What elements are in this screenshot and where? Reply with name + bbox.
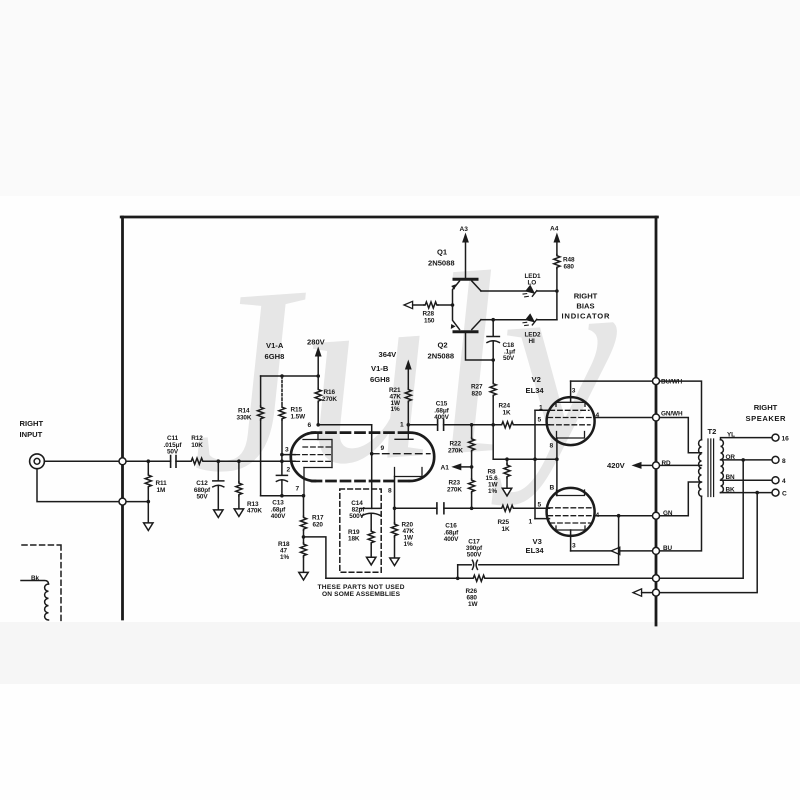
wire feedback row right segment — [486, 577, 652, 579]
svg-text:RIGHT: RIGHT — [20, 419, 44, 428]
V2 pin labels — [538, 388, 600, 450]
border feedthrough terminal upper — [119, 458, 126, 465]
wire R28 to emitter node — [438, 304, 453, 306]
capacitor C15 — [438, 419, 444, 430]
open arrow feedback at R28 — [404, 301, 413, 308]
label C18 .1uf 50V — [503, 342, 516, 362]
node R20 top — [393, 507, 397, 511]
wire BK tap — [721, 492, 772, 494]
svg-text:270K: 270K — [447, 486, 462, 493]
label 420V — [607, 461, 626, 470]
speaker terminal 16 — [772, 434, 779, 441]
label Bk — [31, 575, 40, 582]
label R19 18K — [348, 529, 360, 543]
V1 pentode grid dashes — [372, 453, 430, 455]
label A1 — [441, 464, 450, 471]
border left edge — [121, 217, 124, 619]
terminal GN — [653, 512, 660, 519]
capacitor C13 — [276, 461, 287, 496]
label R20 47K 1W 1% — [402, 522, 415, 549]
node R27 crossing — [491, 423, 495, 427]
terminal NFB arrow row — [653, 589, 660, 596]
svg-text:V1-B: V1-B — [371, 364, 389, 373]
svg-text:1K: 1K — [503, 409, 511, 416]
speaker terminal 4 — [772, 477, 779, 484]
arrow A3 — [462, 233, 469, 278]
svg-text:1%: 1% — [391, 406, 400, 413]
svg-text:280V: 280V — [307, 338, 326, 347]
wire R17 junction to feedback line — [304, 537, 326, 578]
wire R14 R15 280V top rail — [261, 375, 319, 377]
resistor R24 — [501, 422, 515, 428]
svg-text:OR: OR — [726, 454, 736, 461]
wire pin6 over to pin9 column — [318, 424, 372, 426]
label V3 EL34 — [526, 537, 545, 555]
svg-text:5: 5 — [538, 417, 542, 424]
capacitor C17 — [458, 560, 478, 569]
svg-text:270K: 270K — [322, 396, 337, 403]
svg-text:420V: 420V — [607, 461, 626, 470]
terminal GN/WH — [653, 414, 660, 421]
node R22 top — [470, 423, 474, 427]
label Q2 2N5088 — [428, 341, 455, 361]
svg-text:270K: 270K — [448, 447, 463, 454]
wire pin8 down — [394, 477, 396, 509]
node BK junction — [755, 491, 759, 495]
terminal BU — [653, 547, 660, 554]
resistor R15 — [279, 376, 285, 455]
wire BU/WH to primary top — [660, 381, 702, 440]
resistor R12 — [190, 458, 204, 464]
node 280V rail — [316, 374, 320, 378]
label V2 EL34 — [526, 375, 545, 395]
V3 cathode — [557, 490, 585, 496]
label GN/WH — [661, 411, 683, 418]
ground below R19 — [367, 557, 376, 565]
wire g1 riser — [534, 410, 536, 518]
wire V2 pin5 lead — [535, 424, 550, 426]
resistor R13 — [236, 461, 242, 509]
label 4 — [782, 478, 786, 485]
dashed box not-used parts — [340, 489, 381, 572]
label R8 15.6 1W 1% — [486, 469, 499, 496]
speaker terminal 8 — [772, 456, 779, 463]
svg-text:V3: V3 — [533, 537, 542, 546]
terminal feedback row — [653, 575, 660, 582]
wire V2 screen pin4 to GN/WH — [594, 417, 652, 419]
resistor R21 — [405, 388, 411, 425]
arrow 280V supply — [315, 347, 322, 377]
svg-text:A1: A1 — [441, 464, 450, 471]
wire V3 grid row — [444, 507, 535, 509]
ground below R11 — [144, 502, 153, 531]
label R16 270K — [322, 389, 337, 403]
wire pin8 row to C16 — [395, 507, 437, 509]
V1 pentode plate — [395, 433, 413, 440]
svg-text:1: 1 — [539, 405, 543, 412]
wire GN/WH to primary tap — [660, 418, 702, 453]
label R48 680 — [563, 257, 575, 271]
svg-text:1%: 1% — [488, 488, 497, 495]
border top edge — [121, 216, 657, 219]
wire riser to C17 — [479, 516, 619, 565]
label 364V — [379, 350, 398, 359]
label R21 47K 1W 1% — [389, 387, 401, 413]
resistor R28 — [424, 302, 438, 308]
svg-text:6GH8: 6GH8 — [265, 352, 285, 361]
ground below R8 — [502, 488, 511, 496]
svg-text:INDICATOR: INDICATOR — [562, 312, 611, 321]
arrow 364V supply — [405, 360, 412, 389]
node pin1 plate — [407, 423, 411, 427]
resistor R48 — [554, 255, 560, 320]
label R24 1K — [499, 403, 511, 417]
label A3 — [460, 226, 469, 233]
V2 grid dashes — [548, 410, 592, 425]
wire Q1 base to LED1 — [481, 290, 526, 292]
LED1 — [522, 285, 536, 300]
wire V2 pin1 lead — [535, 409, 550, 411]
label RIGHT SPEAKER — [746, 403, 787, 423]
svg-text:620: 620 — [313, 521, 324, 528]
wire V2 grid row — [444, 424, 535, 426]
svg-text:1M: 1M — [157, 487, 166, 494]
resistor R14 — [258, 376, 264, 496]
ground below R18 — [299, 572, 308, 580]
node A1 — [470, 465, 474, 469]
svg-text:2: 2 — [287, 467, 291, 474]
label R11 1M — [156, 480, 168, 494]
wire BN tap — [721, 479, 772, 481]
label 280V — [307, 338, 326, 347]
label C17 390pf 500V — [466, 539, 483, 559]
label RIGHT INPUT — [20, 419, 44, 439]
transformer T2 secondary winding — [721, 440, 724, 493]
wire V2 plate to BU/WH — [571, 380, 653, 382]
resistor R16 — [315, 376, 321, 425]
resistor R18 — [300, 537, 306, 573]
svg-text:2N5088: 2N5088 — [428, 352, 455, 361]
svg-text:B: B — [550, 485, 555, 492]
svg-text:18K: 18K — [348, 536, 360, 543]
svg-text:364V: 364V — [379, 350, 398, 359]
label LED2 HI — [525, 332, 541, 346]
input jack J1 — [30, 454, 45, 469]
svg-text:50V: 50V — [167, 449, 179, 456]
label T2 — [708, 427, 717, 436]
label R26 680 1W — [466, 588, 479, 608]
arrow A4 — [554, 233, 561, 255]
V3 plate — [556, 526, 585, 530]
label C15 .68uf 400V — [434, 401, 449, 422]
tube V3 envelope — [547, 488, 595, 536]
svg-text:150: 150 — [424, 317, 435, 324]
wire V2 pin8 lead — [556, 438, 558, 459]
svg-text:7: 7 — [296, 486, 300, 493]
label R14 330K — [237, 408, 252, 422]
label A4 — [550, 226, 559, 233]
label R15 1.5W — [291, 407, 307, 421]
wire 8 ohm tap down to feedback terminal — [660, 460, 743, 578]
speaker terminal C — [772, 489, 779, 496]
wire LED1 row tail — [537, 290, 557, 292]
node pin7 — [302, 494, 306, 498]
svg-text:820: 820 — [472, 390, 483, 397]
svg-text:330K: 330K — [237, 414, 252, 421]
svg-text:BK: BK — [726, 486, 736, 493]
V2 plate lead to top — [570, 381, 572, 402]
node R11 top — [147, 459, 151, 463]
node C18 bottom — [491, 358, 495, 362]
resistor R25 — [501, 505, 515, 511]
capacitor C16 — [437, 503, 444, 514]
tube V1 envelope — [291, 433, 434, 481]
label C12 680pf 50V — [194, 480, 211, 501]
svg-text:RIGHT: RIGHT — [574, 292, 598, 301]
label BU — [663, 545, 673, 552]
resistor R26 — [472, 575, 486, 581]
capacitor C11 — [171, 456, 176, 468]
svg-text:3: 3 — [285, 447, 289, 454]
svg-text:T2: T2 — [708, 427, 717, 436]
label BK — [726, 486, 736, 493]
wire pin3 link — [282, 455, 295, 462]
arrow A1 — [451, 463, 471, 470]
svg-text:EL34: EL34 — [526, 386, 545, 395]
label R18 47 1% — [278, 541, 290, 561]
LED2 — [522, 314, 536, 329]
svg-text:1: 1 — [529, 519, 533, 526]
svg-text:RIGHT: RIGHT — [754, 403, 778, 412]
label C16 .68uf 400V — [444, 523, 459, 544]
V3 plate lead down — [570, 530, 572, 551]
wire V3 screen pin4 to GN — [594, 515, 652, 517]
label GN — [663, 510, 673, 517]
label C — [782, 491, 787, 498]
label R28 150 — [423, 311, 435, 325]
label R13 470K — [247, 501, 262, 515]
node R23 bottom — [470, 507, 474, 511]
inductor coil bottom left — [45, 584, 49, 620]
label RIGHT BIAS INDICATOR — [562, 292, 611, 321]
capacitor C14 — [360, 508, 381, 530]
svg-text:500V: 500V — [349, 513, 364, 520]
label Q1 2N5088 — [428, 248, 455, 268]
node C17 riser top — [617, 514, 621, 518]
ground below R13 — [234, 509, 243, 517]
wire V3 pin8 lead — [556, 459, 558, 495]
schematic border box — [121, 217, 657, 625]
note THESE PARTS NOT USED — [318, 584, 405, 598]
svg-text:ON SOME ASSEMBLIES: ON SOME ASSEMBLIES — [322, 591, 401, 598]
V2 cathode — [557, 432, 585, 439]
resistor R23 — [469, 467, 475, 508]
wire pin1 lead — [407, 425, 409, 433]
svg-text:1W: 1W — [468, 601, 478, 608]
svg-text:A3: A3 — [460, 226, 469, 233]
label C14 82pf 500V — [349, 500, 365, 520]
svg-text:Q2: Q2 — [438, 341, 448, 350]
node main wire at C13 column — [280, 459, 284, 463]
svg-text:8: 8 — [782, 458, 786, 465]
wire jack to border — [44, 460, 118, 462]
resistor R20 — [391, 508, 397, 558]
label YL — [727, 432, 735, 439]
wire to coil — [21, 581, 49, 585]
V1 triode cathode — [304, 440, 332, 496]
wire V3 plate to BU with open arrow — [571, 547, 653, 554]
label C11 .015uf 50V — [164, 435, 183, 456]
wire Q2 collector down and right — [466, 333, 494, 360]
svg-text:8: 8 — [550, 443, 554, 450]
bottom left dashed box (output xfmr) — [22, 545, 61, 622]
label C13 .68uf 400V — [271, 500, 286, 521]
svg-text:4: 4 — [782, 478, 786, 485]
svg-text:400V: 400V — [271, 513, 286, 520]
svg-text:INPUT: INPUT — [20, 430, 43, 439]
svg-text:A4: A4 — [550, 226, 559, 233]
node R11 bottom — [147, 500, 151, 504]
wire common down to NFB terminal — [660, 493, 757, 593]
node riser cathode — [533, 457, 537, 461]
wire OR tap — [721, 459, 772, 461]
wire V3 pin5 lead — [535, 507, 550, 509]
svg-text:BN: BN — [726, 474, 736, 481]
node R17 R18 junction — [302, 535, 306, 539]
node emitter junction — [451, 303, 455, 307]
label LED1 LO — [525, 273, 541, 287]
node cathode to pins8 — [555, 457, 559, 461]
svg-text:50V: 50V — [503, 355, 515, 362]
open arrow feedback bottom — [633, 589, 652, 596]
label 16 — [782, 436, 790, 443]
right bus edge — [655, 217, 658, 625]
V2 plate — [556, 402, 585, 406]
label RD — [662, 460, 672, 467]
node C13 bottom — [280, 494, 284, 498]
ground below R20 — [390, 558, 399, 566]
resistor R11 — [145, 461, 151, 501]
svg-text:BU/WH: BU/WH — [661, 379, 683, 386]
V3 pin labels — [529, 485, 600, 550]
node grid link pin3 — [280, 453, 284, 457]
label R12 10K — [191, 435, 203, 449]
svg-text:C: C — [782, 491, 787, 498]
svg-text:8: 8 — [388, 488, 392, 495]
svg-text:YL: YL — [727, 432, 735, 439]
svg-text:HI: HI — [529, 338, 536, 345]
border feedthrough terminal lower — [119, 498, 126, 505]
svg-text:1: 1 — [400, 422, 404, 429]
svg-text:EL34: EL34 — [526, 546, 545, 555]
wire pin1 to C15 — [408, 424, 437, 426]
svg-text:3: 3 — [572, 543, 576, 550]
terminal BU/WH — [653, 378, 660, 385]
label R25 1K — [498, 519, 510, 533]
svg-text:470K: 470K — [247, 508, 262, 515]
node R15 top — [280, 374, 284, 378]
label BN — [726, 474, 736, 481]
svg-text:6GH8: 6GH8 — [370, 375, 390, 384]
svg-text:50V: 50V — [196, 494, 208, 501]
node C17 R26 — [456, 577, 460, 581]
svg-text:5: 5 — [538, 502, 542, 509]
svg-text:V1-A: V1-A — [266, 341, 284, 350]
label V1-A 6GH8 — [265, 341, 285, 361]
terminal RD — [653, 462, 660, 469]
ground below C12 — [214, 510, 223, 518]
wire feedback row left segment — [326, 577, 472, 579]
node LED1 R48 — [555, 289, 559, 293]
capacitor C12 — [213, 461, 224, 510]
node pin9 — [370, 452, 374, 456]
label R17 620 — [312, 515, 324, 529]
node OR junction — [741, 458, 745, 462]
wire GN to primary tap — [660, 482, 702, 516]
svg-text:1K: 1K — [502, 526, 510, 533]
svg-text:680: 680 — [564, 263, 575, 270]
arrow 420V — [632, 462, 653, 469]
wire YL tap — [721, 438, 772, 440]
svg-text:2N5088: 2N5088 — [428, 259, 455, 268]
transistor Q2 — [451, 305, 481, 332]
svg-text:9: 9 — [381, 445, 385, 452]
svg-text:400V: 400V — [444, 536, 459, 543]
V3 grid dashes — [548, 508, 592, 523]
wire pin9 column down through tube to C14 — [371, 425, 373, 509]
svg-text:10K: 10K — [191, 442, 203, 449]
transformer T2 primary winding — [699, 440, 702, 496]
V1 pin labels — [285, 422, 404, 495]
node pin6 — [316, 423, 320, 427]
svg-text:GN/WH: GN/WH — [661, 411, 683, 418]
wire BU to primary bottom — [660, 496, 702, 551]
svg-text:6: 6 — [308, 422, 312, 429]
V1 triode grid dashes — [295, 447, 331, 461]
transistor Q1 — [451, 279, 481, 305]
wire RD to primary center — [660, 464, 702, 466]
svg-text:400V: 400V — [434, 414, 449, 421]
V1 pentode cathode — [395, 468, 423, 477]
node C12 — [217, 459, 221, 463]
svg-text:V2: V2 — [532, 375, 541, 384]
svg-text:BIAS: BIAS — [576, 302, 594, 311]
wire cathode line — [493, 458, 557, 460]
resistor R8 — [504, 459, 510, 488]
svg-text:16: 16 — [782, 436, 790, 443]
node C18 top — [491, 318, 495, 322]
transformer T2 core — [708, 439, 714, 497]
wire jack shield down and right — [37, 469, 119, 502]
V1 triode plate — [303, 433, 331, 440]
wire main input line — [126, 460, 295, 462]
wire V3 pin1 lead — [535, 518, 550, 520]
node R13 — [237, 459, 241, 463]
resistor R17 — [300, 496, 306, 537]
svg-text:LO: LO — [528, 280, 537, 287]
wire cathode row to pin7 — [261, 495, 304, 497]
node R8 top — [505, 457, 509, 461]
wire LED2 row — [493, 319, 557, 321]
label BU/WH — [661, 379, 683, 386]
resistor R22 — [469, 425, 475, 467]
label 8 — [782, 458, 786, 465]
label R23 270K — [447, 480, 462, 494]
label R22 270K — [448, 441, 463, 455]
svg-text:1%: 1% — [404, 541, 413, 548]
svg-text:3: 3 — [572, 388, 576, 395]
wire arrow to R28 — [413, 304, 424, 306]
